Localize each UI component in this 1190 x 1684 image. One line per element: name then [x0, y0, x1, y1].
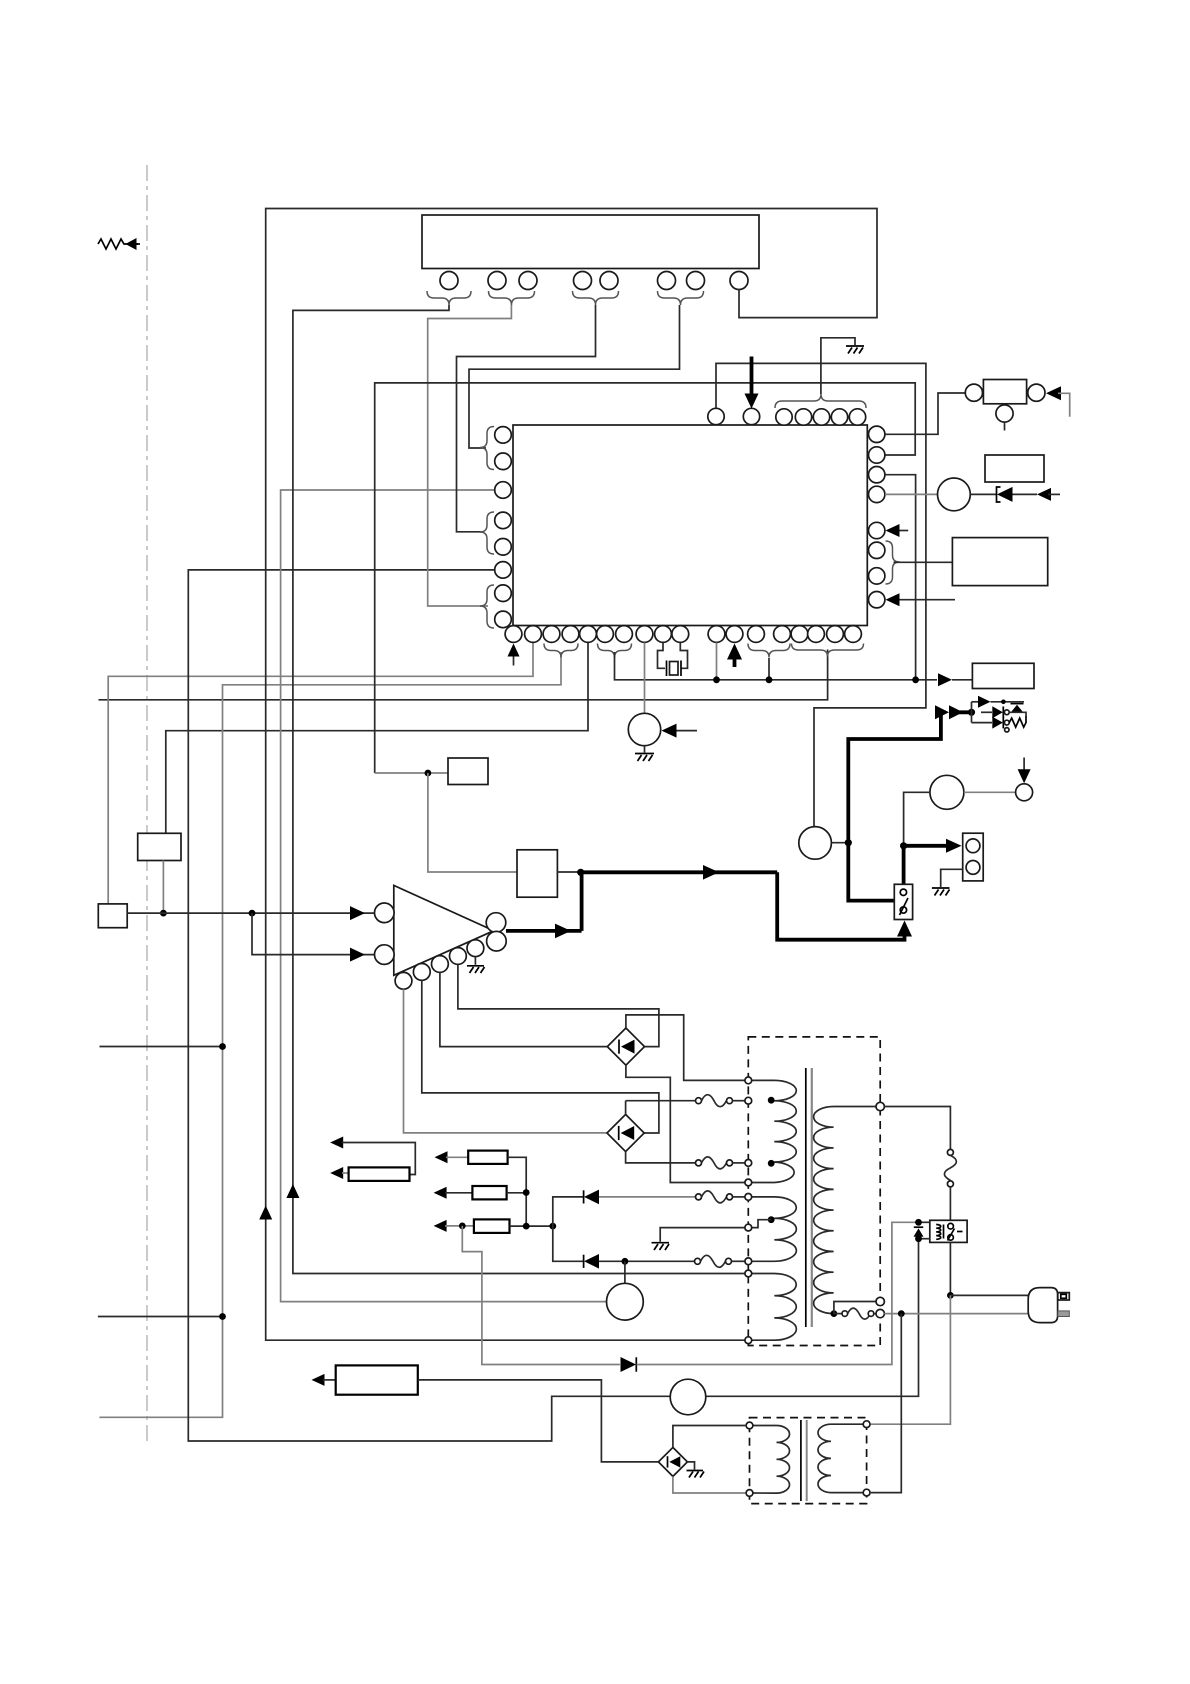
left stub into x=222.5 at y=1046.5: [100, 1046, 223, 1048]
diode cluster rows: [972, 696, 1027, 732]
node dot (848.3,842.7): [845, 839, 852, 846]
D3 top corner to T2 connector: [673, 1426, 745, 1448]
ground G1: [846, 346, 864, 354]
op-amp U2 triangle: [394, 885, 494, 975]
T1 connectors on right dashed edge: [876, 1102, 884, 1110]
circle Z1: [938, 478, 971, 511]
relay RL1: [930, 1220, 967, 1242]
wire op-amp pin to diamond D1 left: [440, 972, 607, 1046]
wire: header pin8 down, around right and top, long vertical x=265.7 to transformer: [266, 209, 877, 1341]
D1 bottom corner route to connector (748,1182.5): [626, 1065, 745, 1182]
wire pin 716 down to y=680: [716, 643, 718, 680]
T1 secondary winding (right): [814, 1107, 881, 1314]
header pin 1: [440, 272, 458, 290]
arrow stub into VR1 from right: [676, 730, 697, 732]
main IC body U1: [513, 425, 867, 626]
wire: IC pin588 down-left to box A: [166, 643, 588, 834]
IC left pins: [495, 427, 512, 444]
input line from box B to op-amp + input: [127, 912, 374, 914]
op-amp input pins: [375, 903, 395, 923]
brace under header pin1: [427, 291, 471, 305]
brace under header pins4-5: [573, 291, 619, 305]
thermal fuse TF1: [834, 1308, 877, 1319]
ground G4 row to transformer tap connector: [652, 1228, 745, 1250]
brace under bottom pins 799-853: [792, 644, 864, 657]
header pin 3: [519, 272, 537, 290]
node dot (252,913.1): [249, 910, 256, 917]
box A (small block above input line): [138, 833, 181, 860]
IC top brace-group pins: [776, 409, 792, 425]
node dot (427.9,773): [425, 770, 432, 777]
arrow down into C3: [1023, 758, 1025, 773]
box B (left input source): [98, 904, 127, 928]
thick wire dot to switch top: [902, 846, 906, 885]
switch SW1: [894, 884, 912, 919]
wire: brace(551/570) stem down-left along y=685 to x=222.5 vertical: [99, 652, 561, 1417]
brace left of pins 7-8: [480, 585, 494, 628]
AC plug line 2 from T1 connector: [884, 1313, 1028, 1315]
IC bottom pins: [505, 626, 522, 643]
resistor R6 row: [435, 1151, 527, 1227]
arrow stub into right pin 599: [897, 599, 955, 601]
circle C1: [799, 827, 832, 860]
T1 winding taps (dots): [768, 1097, 775, 1104]
crystal X1 circuit under pins 663/680: [658, 643, 688, 677]
resistor R9 (AC outlet feed) with arrow: [312, 1365, 659, 1462]
IC top pin B: [743, 408, 759, 424]
thick output wire of op-amp to vertical x=581: [506, 929, 582, 933]
D3 bottom corner to T2 connector: [673, 1476, 745, 1493]
wire op-amp pin to D2 right / fuse row: [422, 980, 659, 1133]
T2 secondary winding: [818, 1424, 867, 1492]
resistor with arrow (top-left antenna stub): [98, 238, 140, 250]
wire: IC right pin1 to fuse block F1: [885, 393, 965, 434]
fuse F2 vertical: [944, 1149, 956, 1220]
D3 right corner to ground G5: [687, 1462, 694, 1470]
wire from R2 junction down to square box S1: [375, 772, 448, 774]
wire: T1 right top to fuse F2 and relay: [884, 1107, 950, 1150]
wire down to T2 right bottom connector: [871, 1314, 902, 1493]
brace under header pins6-7: [658, 291, 704, 305]
D2 top corner up to fuse row: [625, 1101, 627, 1115]
brace above top group: [775, 394, 866, 408]
node dot (769,680): [766, 676, 773, 683]
gray drop from R8 dot to diode line D4 then up to relay coil: [462, 1226, 620, 1365]
rect R3: [985, 455, 1044, 482]
wire from dot down to op-amp - input: [252, 913, 374, 955]
wire IC right pin3 right and down x=915.6 to y=680: [885, 475, 916, 680]
brace under bottom pins 551/570: [544, 644, 578, 658]
wire: header grp4 stem down-left, vertical x=469 to IC left brace1: [469, 305, 680, 448]
diode DD1 row from dot (552.8,1226) up: [553, 1197, 584, 1226]
wire: header grp2 stem down-left, vertical x=427.7 to IC left brace3: [428, 305, 512, 606]
transformer T2 dashed enclosure: [750, 1418, 867, 1504]
brace under bottom pins 756/782: [748, 644, 790, 658]
brace left of pins 1-2: [480, 427, 494, 470]
op-amp bottom pins: [395, 972, 412, 989]
thick arrow into connector CN1: [904, 844, 946, 848]
node: junction dot (222.5,1316.5): [219, 1313, 226, 1320]
brace right of pins (550,576): [886, 541, 900, 584]
IC top pin A: [708, 408, 724, 424]
wire: IC right pin4 to circle Z1: [885, 493, 937, 495]
G4 step to tap dot: [752, 1220, 772, 1228]
variable resistor circle VR1 under pin 644: [644, 643, 646, 714]
wire: header grp3 stem down-left, vertical x=456.5 to IC left brace2: [457, 305, 596, 532]
node dot (716.5,680): [713, 676, 720, 683]
secondary end dot: [831, 1310, 838, 1317]
wire brace stem to big rect R4: [894, 561, 953, 563]
thick arrow into diode cluster: [935, 705, 963, 719]
rect R5: [972, 663, 1034, 688]
resistor R8 row: [434, 1219, 557, 1233]
header pin 5: [600, 272, 618, 290]
tap step up to connector (880,1301.5): [834, 1302, 877, 1314]
wire: left stub y=676 via corner to box B top, and right to IC pin 533: [108, 643, 533, 904]
arrow up stub under pin 513: [513, 655, 515, 666]
header pin 2: [488, 272, 506, 290]
D1 top corner route to transformer connector (748,1080): [626, 1015, 745, 1081]
wire C2 left down to dot above switch: [904, 792, 930, 846]
AC plug line 1: [950, 1294, 1028, 1296]
diode DD2 row from dot down: [553, 1226, 584, 1261]
node dot (971.5,712.3): [968, 709, 975, 716]
node dot (580.7,872.3) thick junction: [577, 869, 584, 876]
wire: IC left single pin1 to x=280.6 vertical down to motor circle: [281, 490, 607, 1302]
arrow up marker on x=292.9: [286, 1184, 299, 1198]
thick wire from op-amp up into switch bottom (arrow up): [777, 872, 904, 939]
brace left of pins 4-5: [480, 512, 494, 554]
wire: brace(605/624) stem right along y=680 to rect R5 with dots: [615, 652, 938, 680]
motor circle M1 below dot: [624, 1261, 626, 1283]
thick wire from diode cluster down-left to circle C1 junction and switch: [848, 712, 941, 900]
ground G3 under VR1: [635, 746, 654, 761]
arrow into R5: [938, 673, 952, 686]
arrow down into top pin B: [750, 357, 754, 397]
resistor R7 row: [434, 1186, 530, 1199]
fuse block F1: circle-rect-circle: [965, 384, 982, 401]
wire brace(756/782) stem down to y=680: [768, 658, 770, 680]
T2 core lines: [800, 1420, 802, 1501]
T1 primary winding (left): [748, 1080, 796, 1340]
D2 bottom corner row with fuse FS2 to connector: [626, 1152, 696, 1163]
T2 primary winding: [750, 1426, 790, 1494]
wire down to T2 right top connector: [871, 1295, 951, 1424]
header pin 8: [730, 272, 748, 290]
chassis isolation dash-dot line: [146, 165, 148, 1442]
node dot (163.4,913.1): [160, 910, 167, 917]
wire op-amp pin to D1 right: [458, 964, 659, 1046]
upper arrow pair row (to R6 chain): [330, 1137, 415, 1181]
T1 connectors on left dashed edge: [745, 1077, 752, 1084]
IC right pins: [869, 426, 885, 442]
node dot (903.6,845.8): [900, 842, 907, 849]
ground G6 from CN1: [932, 869, 963, 895]
header block box: [422, 215, 759, 269]
wire C1 right to thick junction: [831, 842, 848, 844]
wire C2 right to small circle C3: [964, 791, 1016, 793]
T2 connectors: [746, 1422, 753, 1429]
thick wire: dot right to x=777 with arrow: [581, 870, 778, 874]
wire: left stub y=700 to IC bottom brace: [99, 650, 828, 700]
zener diode D5: [970, 487, 1060, 502]
left stub into x=222.5 at y=1316.5: [98, 1316, 223, 1318]
T1 core lines: [805, 1068, 807, 1327]
header pin 6: [658, 272, 676, 290]
transformer T1 dashed enclosure: [748, 1037, 880, 1346]
AC plug P1: [1028, 1288, 1069, 1323]
bridge diamond D1: [607, 1028, 644, 1065]
header pin 4: [574, 272, 592, 290]
wire box A bottom to input line: [162, 861, 164, 914]
op-amp output pins: [486, 913, 506, 933]
node dot (915.6,680): [912, 676, 919, 683]
relay coil leads and flyback diode: [914, 1219, 930, 1242]
bridge diamond D3: [658, 1447, 687, 1476]
brace under bottom pins 605/624: [598, 644, 632, 658]
motor circle M2 on relay feed line: [670, 1379, 706, 1415]
header pin 7: [687, 272, 705, 290]
fuse FS1 on row y=1100.7: [696, 1095, 746, 1107]
circle C2 (big): [930, 775, 964, 809]
wire: IC top pinA up and right to long vertical x=925.9 then to circle C1: [716, 363, 926, 826]
thick arrow up stub under pin 734: [733, 658, 737, 667]
bridge diamond D2: [607, 1114, 644, 1151]
wire: y=383 line from x=374.7 corner to IC right pin2: [375, 383, 916, 773]
wire op-amp pin to diamond D2 left: [404, 989, 608, 1133]
wire: IC left single pin2 to x=188 vertical down to motor line: [188, 570, 918, 1441]
relay contact bottom to AC line dot: [949, 1242, 951, 1295]
wire: header grp1 stem down-left, long vertical x=292.9 to transformer connector: [293, 305, 745, 1274]
arrow stub into right pin 530: [897, 530, 908, 532]
rect R2: [448, 758, 488, 785]
arrow up marker on x=265.7: [259, 1206, 272, 1220]
square box S1: [517, 850, 557, 897]
connector CN1: [963, 833, 984, 881]
wire from top brace stem to ground G1: [821, 338, 855, 394]
node: junction dot (222.5,1046.5): [219, 1043, 226, 1050]
ground G2 under op-amp pin: [467, 957, 485, 973]
arrow into F1 right circle: [1046, 386, 1061, 400]
big rect R4: [952, 538, 1047, 586]
circle C3: [1016, 784, 1033, 801]
brace under header pins2-3: [489, 291, 535, 305]
